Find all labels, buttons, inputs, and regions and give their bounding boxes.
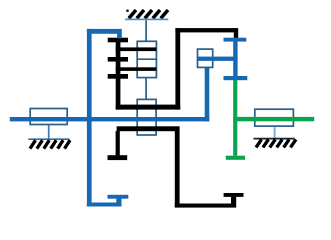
black frame right column lower [175, 131, 180, 208]
bearing left stem [48, 125, 50, 139]
carrier left drop [116, 131, 120, 155]
blue main axis shaft [10, 117, 210, 121]
black shaft vertical (comb) [116, 40, 121, 110]
brake stem lower [145, 78, 147, 99]
clutch pack inner plate line [137, 58, 157, 60]
spline tooth 1 [108, 38, 128, 43]
green foot T-bar [226, 156, 245, 160]
ground hatch top [129, 10, 168, 18]
ground hatch top left tick [126, 10, 128, 12]
black output T-bar [224, 193, 244, 197]
green output axis [233, 117, 314, 121]
blue input column [87, 29, 92, 207]
pinion connector band [198, 57, 238, 61]
carrier upper bar [116, 105, 181, 110]
black frame top rail [175, 28, 238, 32]
blue right vertical [233, 38, 237, 80]
ground line right [254, 138, 295, 140]
blue bottom T-bar [108, 195, 129, 199]
blue top rail down stub [117, 34, 122, 39]
blue axis up vertical [205, 67, 210, 121]
ground hatch left [30, 140, 70, 148]
black frame bottom rail [175, 204, 236, 208]
carrier lower bar [117, 126, 180, 131]
black top rail end stub [234, 32, 238, 38]
brake stem upper [145, 20, 147, 41]
blue mesh bar bottom [224, 76, 248, 80]
bearing housing right (rect) [255, 109, 294, 126]
blue top rail [87, 29, 122, 34]
pinion housing (rect) [198, 49, 213, 67]
carrier foot T-bar [108, 155, 128, 160]
gear block housing (rect) [137, 99, 156, 135]
green output vertical [233, 80, 237, 156]
ground line left [28, 138, 69, 140]
spline tooth 3 [108, 74, 128, 79]
blue mesh bar top [224, 38, 247, 42]
blue bottom riser [116, 198, 121, 203]
blue bottom rail [87, 203, 122, 207]
bearing right stem [274, 127, 276, 139]
spline tooth 2 [108, 57, 128, 62]
clutch plate bar 2 [116, 67, 157, 71]
ground line top [125, 18, 168, 20]
black frame right column upper [175, 28, 180, 110]
black output riser [231, 197, 236, 204]
clutch pack housing (rect) [137, 41, 156, 77]
bearing housing left (rect) [30, 109, 67, 125]
clutch plate bar 1 [116, 47, 157, 51]
ground hatch right [256, 139, 296, 147]
